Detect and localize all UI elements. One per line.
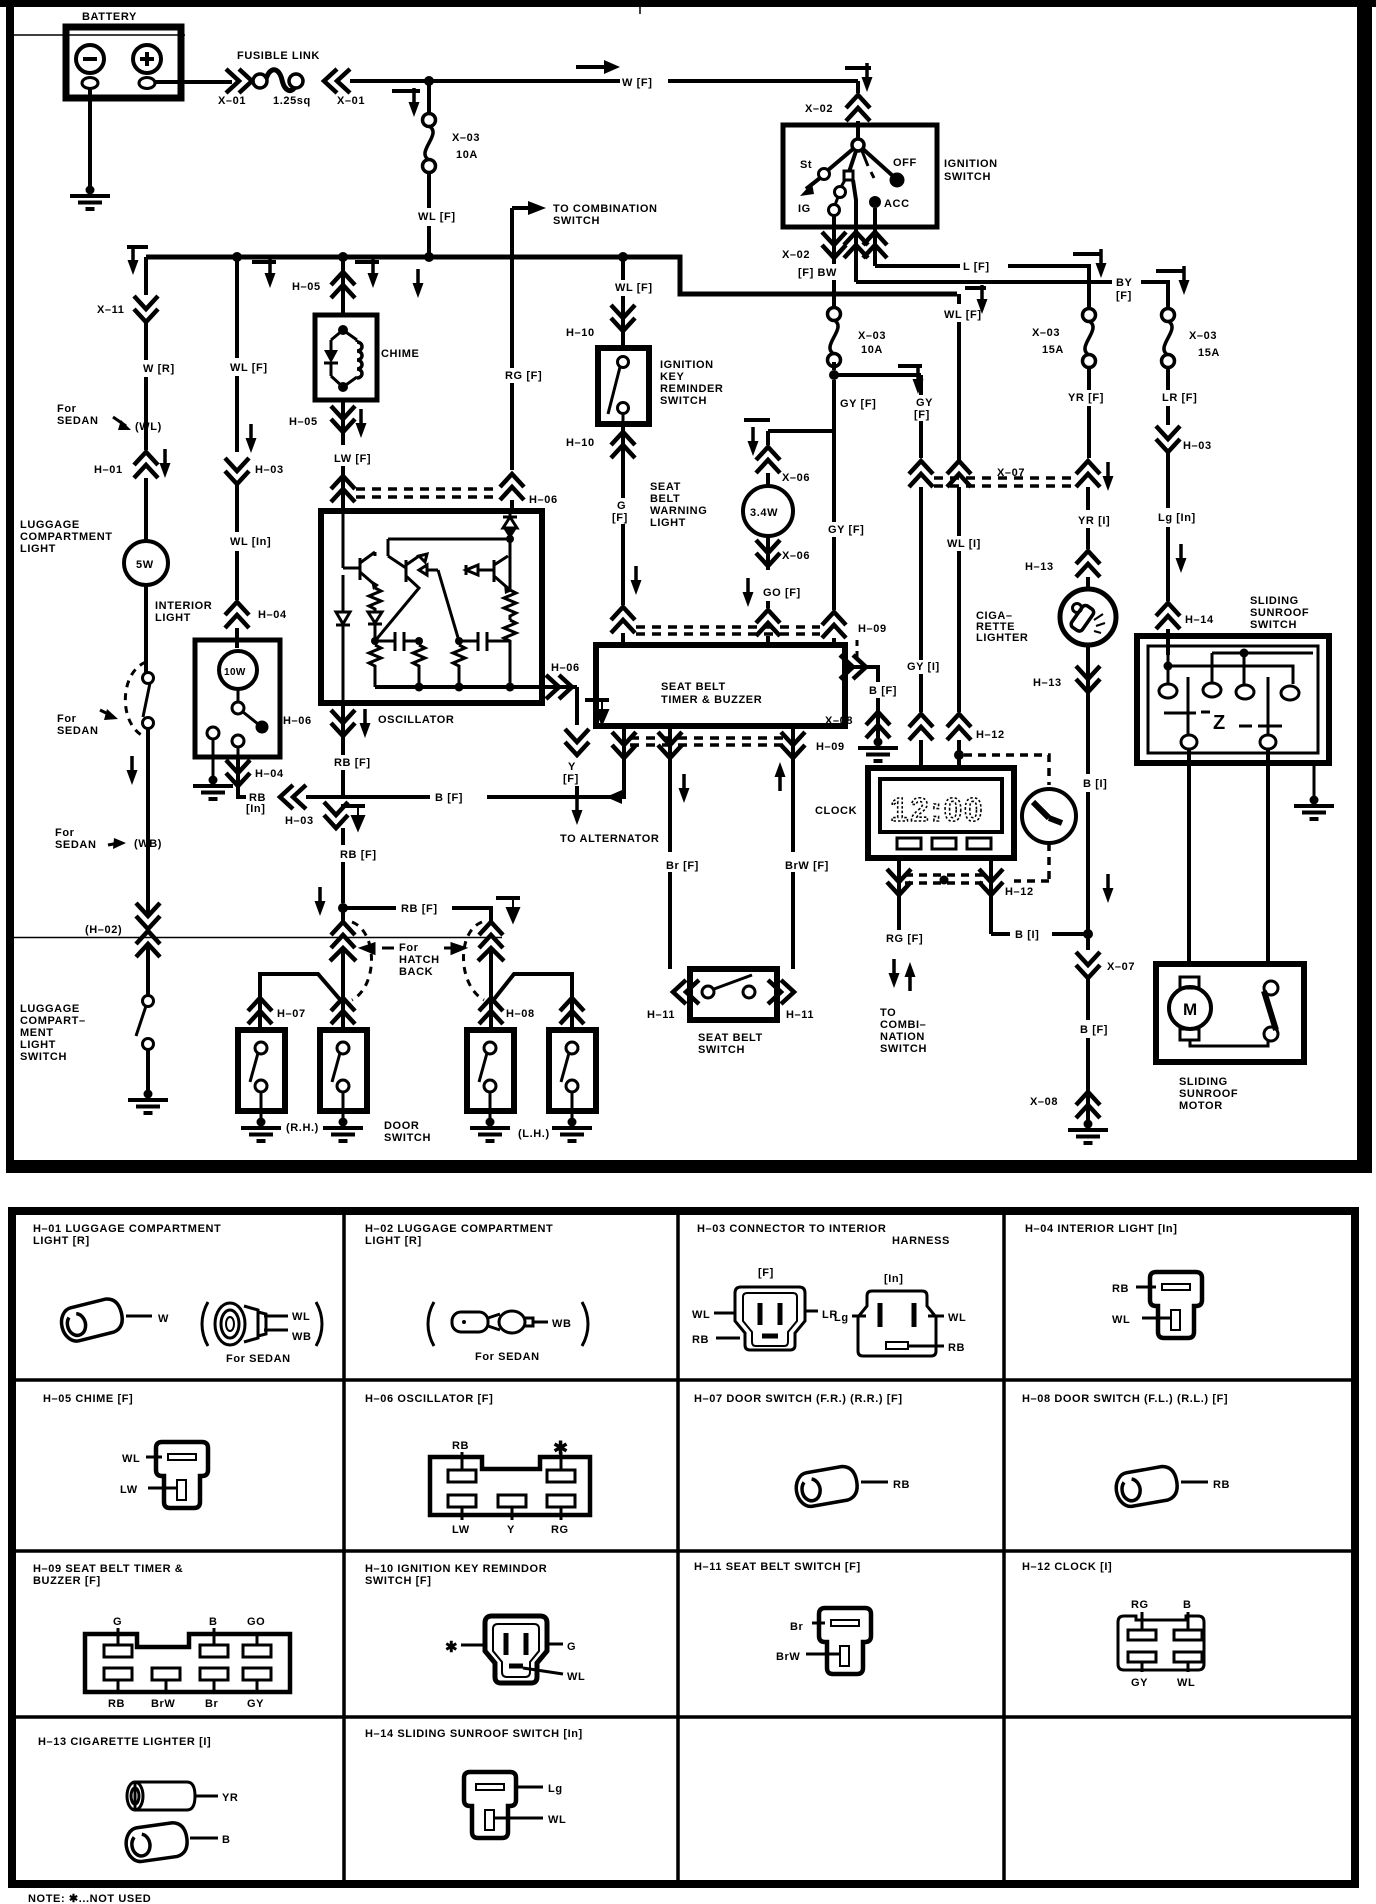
svg-text:G: G	[113, 1616, 122, 1628]
svg-text:SWITCH: SWITCH	[20, 1051, 67, 1063]
svg-text:IGNITION: IGNITION	[944, 158, 998, 170]
svg-text:[F]: [F]	[1116, 290, 1132, 302]
svg-text:MENT: MENT	[20, 1027, 54, 1039]
svg-text:H–10 IGNITION KEY REMINDOR: H–10 IGNITION KEY REMINDOR	[365, 1563, 547, 1575]
svg-text:Lg [In]: Lg [In]	[1158, 512, 1196, 524]
svg-text:GY [F]: GY [F]	[828, 524, 864, 536]
svg-text:SEDAN: SEDAN	[55, 839, 97, 851]
elbow annotation right of WL junction	[252, 259, 276, 288]
svg-text:WB: WB	[292, 1331, 312, 1343]
svg-text:DOOR: DOOR	[384, 1120, 419, 1132]
svg-text:X–06: X–06	[782, 472, 810, 484]
svg-text:[F] BW: [F] BW	[798, 267, 837, 279]
wire B [I] vertical	[1083, 696, 1114, 950]
svg-text:RB: RB	[692, 1334, 709, 1346]
svg-text:X–08: X–08	[825, 715, 853, 727]
svg-text:IGNITION: IGNITION	[660, 359, 714, 371]
svg-text:RB: RB	[948, 1342, 965, 1354]
door switch R.H. 2	[320, 1030, 367, 1120]
cell H-02	[365, 1223, 553, 1247]
svg-text:WB: WB	[552, 1318, 572, 1330]
svg-text:B [F]: B [F]	[435, 792, 463, 804]
svg-text:TO: TO	[880, 1007, 896, 1019]
svg-text:LR [F]: LR [F]	[1162, 392, 1197, 404]
sunroof switch ground	[1294, 763, 1334, 819]
H-01 connector	[94, 449, 171, 541]
wire YR [F]	[1068, 367, 1104, 458]
svg-text:SLIDING: SLIDING	[1179, 1076, 1228, 1088]
H-03 connector	[225, 458, 284, 532]
H-04 connector bottom	[226, 757, 284, 797]
svg-text:10A: 10A	[456, 149, 478, 161]
svg-text:H–05 CHIME [F]: H–05 CHIME [F]	[43, 1393, 133, 1405]
svg-text:REMINDER: REMINDER	[660, 383, 723, 395]
svg-text:[In]: [In]	[246, 803, 266, 815]
(H-02) connector	[85, 903, 160, 995]
svg-text:X–03: X–03	[858, 330, 886, 342]
svg-text:H–05: H–05	[292, 281, 321, 293]
svg-text:COMPART–: COMPART–	[20, 1015, 86, 1027]
seat belt switch	[647, 969, 814, 1056]
svg-text:WL: WL	[948, 1312, 966, 1324]
wire G [F]	[612, 460, 642, 605]
door switch L.H. 1	[467, 1030, 514, 1120]
door switch L.H. 2	[549, 1030, 596, 1120]
svg-text:✱: ✱	[445, 1639, 458, 1656]
svg-text:✱: ✱	[553, 1438, 568, 1458]
svg-text:H–03 CONNECTOR TO INTERIOR: H–03 CONNECTOR TO INTERIOR	[697, 1223, 886, 1235]
svg-text:X–03: X–03	[452, 132, 480, 144]
svg-text:H–02 LUGGAGE COMPARTMENT: H–02 LUGGAGE COMPARTMENT	[365, 1223, 553, 1235]
door switch wires fanout	[260, 970, 572, 1030]
svg-text:[F]: [F]	[758, 1267, 774, 1279]
wire RG [F] to oscillator	[500, 208, 558, 511]
G chevron into timer	[611, 607, 635, 645]
svg-text:H–12: H–12	[1005, 886, 1034, 898]
svg-text:RG [F]: RG [F]	[505, 370, 542, 382]
svg-text:SEDAN: SEDAN	[57, 415, 99, 427]
svg-text:LIGHT: LIGHT	[20, 543, 56, 555]
svg-text:LIGHTER: LIGHTER	[976, 632, 1028, 644]
svg-text:LUGGAGE: LUGGAGE	[20, 1003, 80, 1015]
svg-text:ACC: ACC	[884, 198, 910, 210]
svg-text:Y: Y	[568, 761, 576, 773]
luggage compartment light switch	[128, 996, 168, 1114]
svg-text:FUSIBLE LINK: FUSIBLE LINK	[237, 50, 320, 62]
svg-text:SWITCH: SWITCH	[384, 1132, 431, 1144]
svg-text:5W: 5W	[136, 559, 154, 571]
H-03 connector (LR)	[1156, 426, 1212, 508]
svg-text:WL [I]: WL [I]	[947, 538, 981, 550]
svg-text:H–03: H–03	[285, 815, 314, 827]
svg-text:H–06: H–06	[551, 662, 580, 674]
svg-text:H–04: H–04	[255, 768, 284, 780]
door switch R.H. 1	[238, 1030, 285, 1120]
wire RB [F]	[334, 757, 371, 797]
svg-text:H–04 INTERIOR LIGHT [In]: H–04 INTERIOR LIGHT [In]	[1025, 1223, 1178, 1235]
svg-text:OFF: OFF	[893, 157, 917, 169]
svg-text:LIGHT: LIGHT	[650, 517, 686, 529]
svg-text:H–10: H–10	[566, 437, 595, 449]
svg-text:H–11: H–11	[786, 1009, 814, 1021]
svg-text:H–14 SLIDING SUNROOF SWITCH [I: H–14 SLIDING SUNROOF SWITCH [In]	[365, 1728, 583, 1740]
svg-text:BELT: BELT	[650, 493, 680, 505]
svg-text:LIGHT: LIGHT	[155, 612, 191, 624]
clock box	[815, 768, 1014, 858]
svg-text:YR [I]: YR [I]	[1078, 515, 1110, 527]
ignition key reminder switch	[598, 348, 723, 424]
svg-text:For SEDAN: For SEDAN	[226, 1353, 291, 1365]
wire GY [F] 1	[828, 362, 924, 610]
H-10 connector top	[566, 305, 635, 339]
H-08 cylinder connector	[1114, 1464, 1230, 1508]
svg-text:GY [F]: GY [F]	[840, 398, 876, 410]
H-03 connector (RB)	[285, 802, 365, 845]
down arrow annotation left of fuse junction	[413, 269, 424, 298]
H-12 connector chevrons	[909, 714, 1049, 785]
svg-text:H–11 SEAT BELT SWITCH [F]: H–11 SEAT BELT SWITCH [F]	[694, 1561, 861, 1573]
svg-text:WL: WL	[122, 1453, 140, 1465]
wire B [I] horizontal	[991, 929, 1093, 941]
B [F] output right	[840, 640, 897, 706]
svg-text:TIMER & BUZZER: TIMER & BUZZER	[661, 694, 762, 706]
svg-text:X–08: X–08	[1030, 1096, 1058, 1108]
wire RB [F] 2	[340, 849, 377, 903]
svg-text:BY: BY	[1116, 277, 1133, 289]
wire Y [F]	[560, 729, 589, 797]
svg-text:WL [In]: WL [In]	[230, 536, 271, 548]
For SEDAN (WB) note	[55, 827, 162, 915]
svg-text:YR: YR	[222, 1792, 238, 1804]
svg-text:H–13: H–13	[1025, 561, 1054, 573]
svg-text:Br [F]: Br [F]	[666, 860, 699, 872]
H-01 bullet connector	[58, 1296, 169, 1344]
svg-text:(R.H.): (R.H.)	[286, 1122, 319, 1134]
H-05 connector bottom	[289, 400, 367, 445]
seat belt timer and buzzer box	[596, 645, 845, 726]
H-04 connector top	[225, 602, 287, 648]
svg-text:W: W	[158, 1313, 169, 1325]
svg-text:SEAT BELT: SEAT BELT	[661, 681, 726, 693]
svg-text:X–01: X–01	[218, 95, 246, 107]
svg-text:NOTE: ✱...NOT USED: NOTE: ✱...NOT USED	[28, 1893, 151, 1904]
svg-text:For: For	[399, 942, 419, 954]
sliding sunroof switch box	[1137, 636, 1329, 763]
svg-text:H–07: H–07	[277, 1008, 306, 1020]
cell H-09	[33, 1563, 183, 1587]
schematic outer border	[0, 0, 1376, 1173]
svg-text:For: For	[55, 827, 75, 839]
svg-text:X–02: X–02	[782, 249, 810, 261]
for hatch back dashed curves	[352, 922, 484, 1000]
interior light label	[155, 600, 212, 624]
svg-text:10W: 10W	[224, 667, 246, 678]
svg-text:SEAT BELT: SEAT BELT	[698, 1032, 763, 1044]
H-10 connector	[445, 1616, 585, 1683]
chime	[315, 315, 419, 400]
svg-text:BrW: BrW	[776, 1651, 800, 1663]
H-01 sedan connector	[202, 1302, 322, 1365]
svg-text:BrW: BrW	[151, 1698, 175, 1710]
TO ALTERNATOR	[560, 796, 659, 845]
X-06 connector bottom	[743, 536, 811, 607]
svg-text:X–03: X–03	[1032, 327, 1060, 339]
svg-text:H–09: H–09	[858, 623, 887, 635]
H-13 connectors	[124, 1782, 238, 1863]
svg-text:X–06: X–06	[782, 550, 810, 562]
wire W [R]	[143, 322, 175, 450]
svg-text:SWITCH: SWITCH	[1250, 619, 1297, 631]
H-07 cylinder connector	[794, 1464, 910, 1508]
svg-text:H–01: H–01	[94, 464, 123, 476]
svg-text:CHIME: CHIME	[381, 348, 419, 360]
svg-text:RB [F]: RB [F]	[334, 757, 371, 769]
svg-text:WL: WL	[548, 1814, 566, 1826]
H-09 connector (GY)	[822, 612, 887, 645]
luggage compartment light bulb 5W	[124, 541, 168, 585]
wire GY [I]	[907, 661, 940, 712]
svg-text:WL [F]: WL [F]	[944, 309, 982, 321]
svg-text:H–09: H–09	[816, 741, 845, 753]
svg-text:HATCH: HATCH	[399, 954, 440, 966]
X-08 connector and ground (timer)	[825, 706, 898, 761]
svg-text:W [F]: W [F]	[622, 77, 652, 89]
X-08 connector (B) and ground	[1030, 1092, 1108, 1143]
H-10 connector bottom	[566, 424, 635, 460]
svg-text:SEAT: SEAT	[650, 481, 681, 493]
bus left elbow annotation	[127, 246, 148, 275]
svg-text:NATION: NATION	[880, 1031, 925, 1043]
svg-text:LW: LW	[120, 1484, 138, 1496]
wire RB [In]	[246, 785, 343, 815]
svg-text:W [R]: W [R]	[143, 363, 175, 375]
H-06 output right (Y)	[542, 662, 609, 725]
svg-text:H–14: H–14	[1185, 614, 1214, 626]
svg-text:RB [F]: RB [F]	[340, 849, 377, 861]
svg-text:GY: GY	[1131, 1677, 1148, 1689]
wire BY [F]	[856, 266, 1190, 309]
wire LW [F]	[331, 453, 371, 511]
svg-text:H–06: H–06	[283, 715, 312, 727]
svg-text:GY: GY	[916, 397, 933, 409]
seat belt warning bulb 3.4W	[743, 486, 793, 536]
cell H-10	[365, 1563, 547, 1587]
svg-text:SWITCH: SWITCH	[698, 1044, 745, 1056]
wire YR [I]	[1078, 487, 1110, 549]
svg-text:LUGGAGE: LUGGAGE	[20, 519, 80, 531]
wire B [F] bottom	[1080, 1024, 1108, 1120]
sliding sunroof motor box	[1156, 964, 1304, 1062]
X-02 connector above ignition switch	[805, 63, 873, 125]
wire BW to fuse	[798, 258, 837, 308]
svg-text:[F]: [F]	[612, 512, 628, 524]
svg-text:RB: RB	[893, 1479, 910, 1491]
svg-text:SWITCH: SWITCH	[553, 215, 600, 227]
wire WL [I]	[947, 538, 981, 712]
svg-text:LIGHT [R]: LIGHT [R]	[365, 1235, 422, 1247]
elbow annotation right of chime junction	[355, 259, 379, 288]
X-06 connector top	[756, 447, 810, 486]
svg-text:B: B	[209, 1616, 218, 1628]
wire bulb to switch	[144, 585, 148, 672]
svg-text:COMBI–: COMBI–	[880, 1019, 926, 1031]
svg-text:RB: RB	[452, 1440, 469, 1452]
svg-text:St: St	[800, 159, 812, 171]
interior light ground	[193, 776, 233, 800]
svg-text:SWITCH: SWITCH	[660, 395, 707, 407]
battery	[66, 11, 181, 98]
svg-text:G: G	[567, 1641, 576, 1653]
svg-text:COMPARTMENT: COMPARTMENT	[20, 531, 113, 543]
svg-text:RB: RB	[1213, 1479, 1230, 1491]
svg-text:RB: RB	[108, 1698, 125, 1710]
svg-text:H–06 OSCILLATOR [F]: H–06 OSCILLATOR [F]	[365, 1393, 493, 1405]
wire WL [F] to reminder switch	[615, 257, 653, 348]
cell H-03	[697, 1223, 950, 1247]
wire L [F]	[875, 249, 1107, 309]
svg-text:For: For	[57, 403, 77, 415]
svg-text:GO: GO	[247, 1616, 265, 1628]
door switch labels	[286, 1120, 550, 1144]
H-05 plug connector	[120, 1272, 1196, 1508]
wire WL [F]	[230, 257, 268, 453]
cigarette lighter	[976, 589, 1116, 645]
svg-text:G: G	[617, 500, 626, 512]
svg-text:H–13: H–13	[1033, 677, 1062, 689]
fuse X-03 10A top	[423, 81, 481, 173]
table grid	[12, 1211, 1355, 1884]
svg-text:RG: RG	[551, 1524, 569, 1536]
svg-text:WL: WL	[1112, 1314, 1130, 1326]
H-09 dashed harness top	[636, 627, 820, 634]
svg-text:TO ALTERNATOR: TO ALTERNATOR	[560, 833, 659, 845]
svg-text:[F]: [F]	[563, 773, 579, 785]
svg-text:Z: Z	[1213, 712, 1225, 734]
oscillator internals	[336, 511, 542, 703]
svg-text:GY [I]: GY [I]	[907, 661, 940, 673]
sunroof switch internals	[1159, 649, 1313, 750]
oscillator box	[321, 511, 542, 703]
svg-text:WL [F]: WL [F]	[418, 211, 456, 223]
svg-text:GO [F]: GO [F]	[763, 587, 801, 599]
wire WL [In]	[230, 536, 271, 600]
H-07 connectors	[248, 998, 355, 1024]
svg-text:H–07 DOOR SWITCH (F.R.) (R.R.): H–07 DOOR SWITCH (F.R.) (R.R.) [F]	[694, 1393, 903, 1405]
svg-text:KEY: KEY	[660, 371, 684, 383]
H-14 plug connector	[464, 1772, 566, 1838]
svg-text:B [I]: B [I]	[1083, 778, 1107, 790]
sunroof motor internals	[1169, 977, 1278, 1046]
interior light box	[195, 640, 280, 778]
svg-text:X–11: X–11	[97, 304, 124, 316]
luggage compartment light label	[20, 519, 113, 555]
luggage compartment light switch label	[20, 1003, 86, 1063]
svg-text:WL: WL	[292, 1311, 310, 1323]
svg-text:B: B	[1183, 1599, 1192, 1611]
svg-text:WL: WL	[692, 1309, 710, 1321]
svg-text:CLOCK: CLOCK	[815, 805, 857, 817]
wire W [F] top	[350, 60, 858, 89]
wire GY [F] 2	[914, 375, 933, 458]
cell H-01	[33, 1223, 221, 1247]
H-06 dashed harness lines	[356, 489, 498, 497]
H-14 connector	[1156, 603, 1214, 655]
svg-text:OSCILLATOR: OSCILLATOR	[378, 714, 454, 726]
svg-text:SUNROOF: SUNROOF	[1179, 1088, 1238, 1100]
wire B [F] horizontal	[343, 792, 577, 804]
svg-text:L [F]: L [F]	[963, 261, 990, 273]
svg-text:WL: WL	[1177, 1677, 1195, 1689]
svg-text:H–09 SEAT BELT TIMER &: H–09 SEAT BELT TIMER &	[33, 1563, 183, 1575]
svg-text:BATTERY: BATTERY	[82, 11, 137, 23]
wire WL [F] fuse to bus	[418, 172, 456, 257]
RB [F] junction and horizontal	[315, 887, 521, 922]
svg-text:H–10: H–10	[566, 327, 595, 339]
svg-text:B [F]: B [F]	[869, 685, 897, 697]
svg-text:WL: WL	[567, 1671, 585, 1683]
svg-text:LIGHT: LIGHT	[20, 1039, 56, 1051]
ignition switch	[783, 125, 998, 227]
svg-text:H–08: H–08	[506, 1008, 535, 1020]
H-09 connector	[85, 1616, 290, 1710]
svg-text:For SEDAN: For SEDAN	[475, 1351, 540, 1363]
svg-text:H–13 CIGARETTE LIGHTER [I]: H–13 CIGARETTE LIGHTER [I]	[38, 1736, 211, 1748]
svg-text:X–07: X–07	[997, 467, 1025, 479]
wire GY to bulb branch	[744, 420, 833, 456]
svg-text:WL [F]: WL [F]	[230, 362, 268, 374]
svg-text:WL [F]: WL [F]	[615, 282, 653, 294]
H-03 connector [In]	[834, 1273, 966, 1356]
svg-text:YR [F]: YR [F]	[1068, 392, 1104, 404]
H-02 sedan connector	[428, 1302, 588, 1363]
svg-text:H–05: H–05	[289, 416, 318, 428]
svg-text:Br: Br	[790, 1621, 804, 1633]
svg-text:(L.H.): (L.H.)	[518, 1128, 550, 1140]
X-07 connector chevrons	[909, 294, 1114, 660]
elbow annotation at WL right corner	[965, 285, 988, 314]
svg-text:H–04: H–04	[258, 609, 287, 621]
svg-text:12:00: 12:00	[890, 791, 984, 828]
svg-text:[F]: [F]	[914, 409, 930, 421]
wire RG [F] to combination switch	[880, 933, 927, 1055]
H-04 plug connector	[1112, 1272, 1202, 1338]
hatch back chevrons	[330, 922, 504, 970]
H-13 connector top	[1025, 551, 1100, 589]
svg-text:H–03: H–03	[1183, 440, 1212, 452]
svg-text:BrW [F]: BrW [F]	[785, 860, 829, 872]
scan artifact thin lines	[10, 7, 640, 938]
svg-text:B [I]: B [I]	[1015, 929, 1039, 941]
svg-text:Lg: Lg	[834, 1312, 849, 1324]
X-07 connector (B)	[1076, 952, 1135, 1020]
svg-text:RB [F]: RB [F]	[401, 903, 438, 915]
svg-text:X–07: X–07	[1107, 961, 1135, 973]
timer bottom outputs	[578, 726, 845, 969]
svg-text:(WL): (WL)	[135, 421, 162, 433]
X-11 connector	[97, 257, 158, 322]
TO COMBINATION SWITCH (top)	[512, 201, 658, 227]
sliding sunroof motor label	[1179, 1076, 1238, 1112]
svg-text:H–12 CLOCK [I]: H–12 CLOCK [I]	[1022, 1561, 1112, 1573]
H-06 connector below oscillator	[283, 703, 371, 755]
battery ground wire	[70, 88, 110, 209]
svg-text:RG: RG	[1131, 1599, 1149, 1611]
wire battery to fusible link	[155, 80, 232, 84]
svg-text:SWITCH: SWITCH	[944, 171, 991, 183]
sliding sunroof switch label	[1250, 595, 1309, 631]
wire LR [F]	[1162, 367, 1197, 425]
H-12 connector	[1118, 1599, 1204, 1689]
